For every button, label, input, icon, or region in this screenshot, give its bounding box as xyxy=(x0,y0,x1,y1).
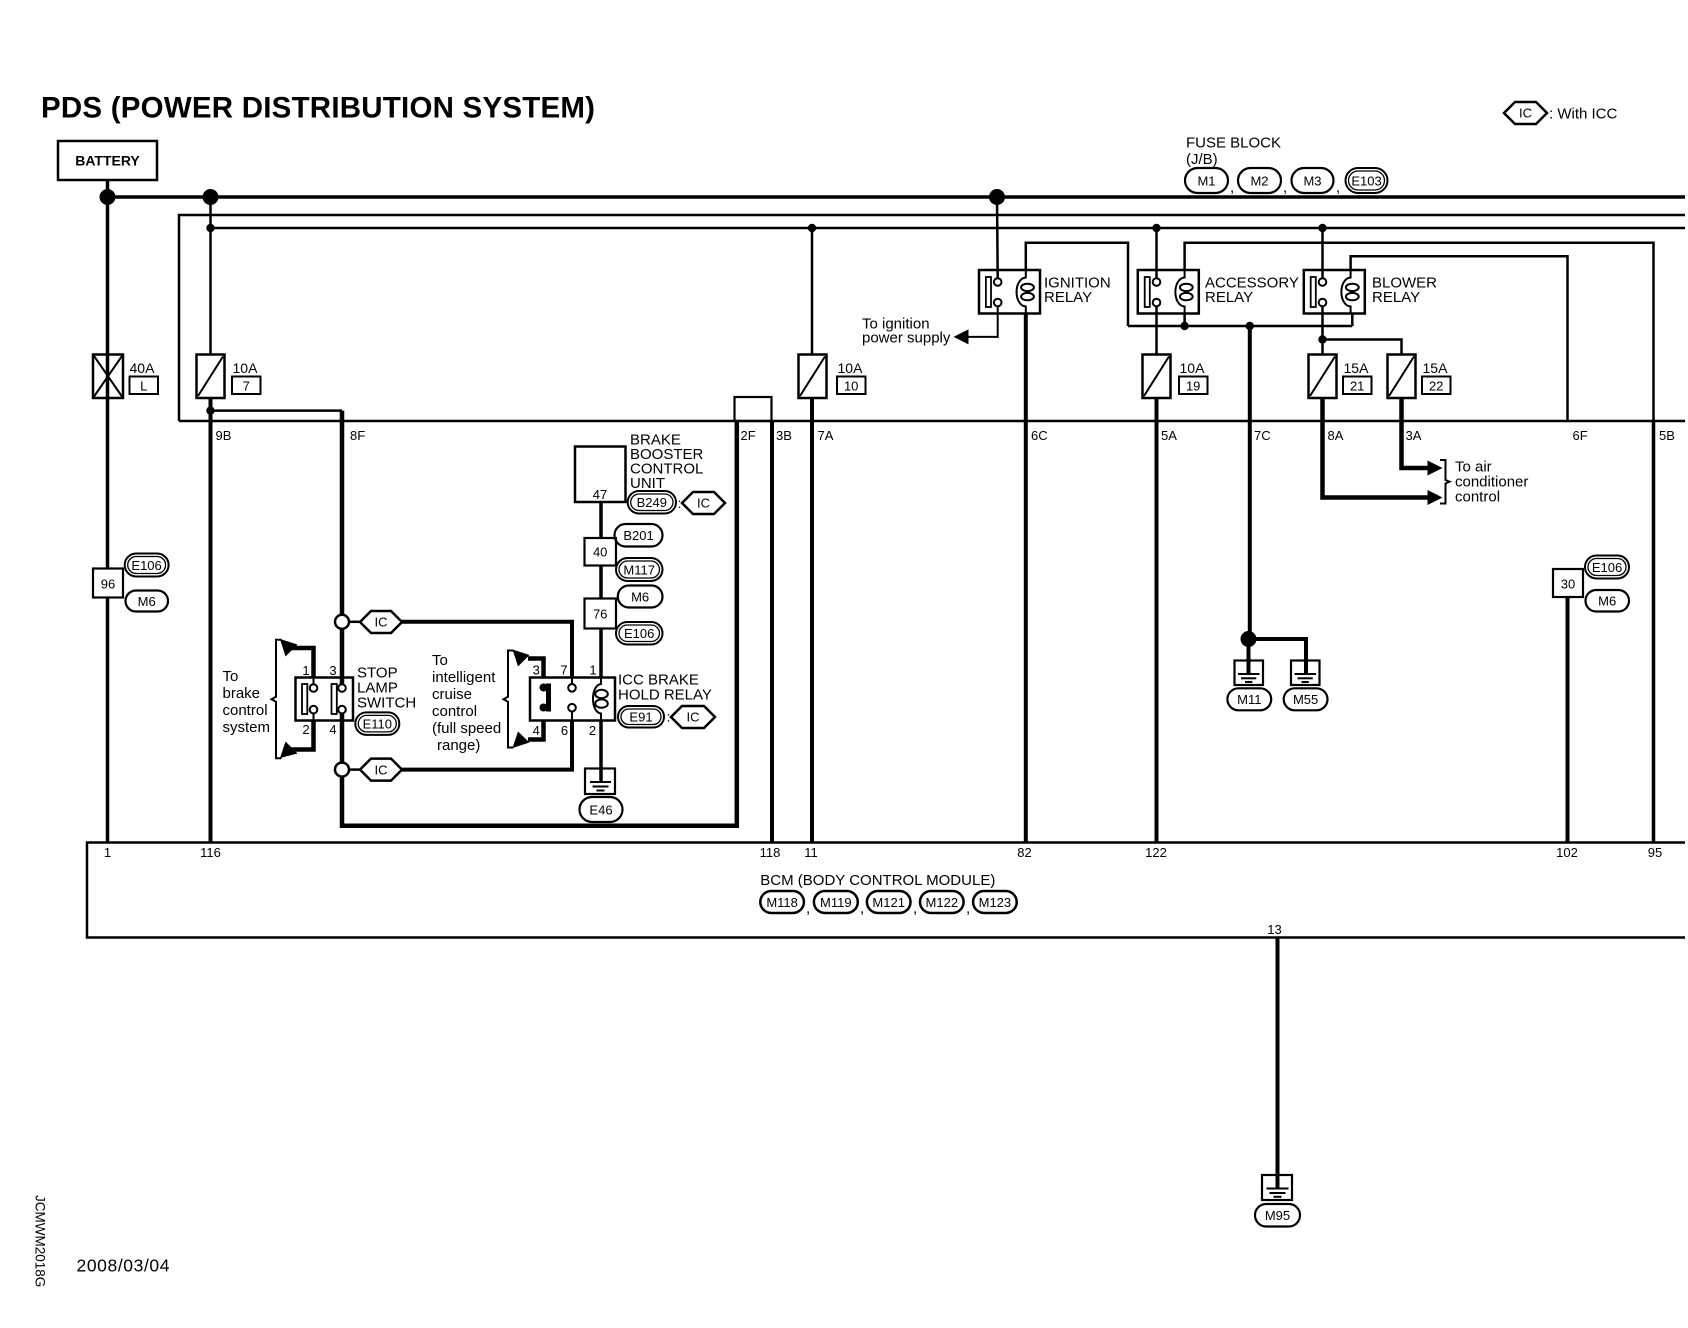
svg-text:7: 7 xyxy=(243,379,250,394)
BCM box xyxy=(87,843,1685,938)
wire stop lamp pin 1 xyxy=(313,678,315,685)
connector M122 oval xyxy=(920,891,970,917)
junction dot L3 x812 xyxy=(808,224,816,232)
wire ignition coil top L4a xyxy=(1026,243,1128,326)
svg-text:22: 22 xyxy=(1429,379,1443,394)
wire bus L3 xyxy=(211,227,1686,230)
wire stop lamp pin 2 xyxy=(313,713,315,720)
fuse 10 10A xyxy=(799,355,866,399)
svg-text:To: To xyxy=(432,652,448,669)
wire 8A fuse21 to air conditioner arrow xyxy=(1323,398,1443,505)
wire branch to fuse 22 xyxy=(1323,340,1402,355)
svg-text:IC: IC xyxy=(375,615,388,630)
connector M55 oval xyxy=(1284,688,1328,710)
svg-text:power supply: power supply xyxy=(862,330,951,347)
junction dot L3 x1322 xyxy=(1318,224,1326,232)
wire IC top to ICC relay pin 7 xyxy=(402,622,572,678)
svg-text:E106: E106 xyxy=(131,558,161,573)
IC hexagon B249 xyxy=(682,492,725,514)
svg-text:2: 2 xyxy=(302,722,309,737)
wire 5B below L9 to BCM pin 95 xyxy=(1652,421,1656,843)
label accessory relay xyxy=(1205,275,1299,307)
svg-text:RELAY: RELAY xyxy=(1372,289,1420,306)
wire bus to fuse 7 xyxy=(209,197,212,355)
svg-text:B201: B201 xyxy=(623,528,653,543)
connector E46 oval xyxy=(580,797,623,822)
wire pin6 inside xyxy=(571,712,573,721)
connector 96 box xyxy=(93,569,123,598)
wire blower contact down xyxy=(1321,306,1324,354)
svg-text:96: 96 xyxy=(101,577,115,592)
stop lamp switch xyxy=(296,678,354,721)
fuse 21 15A xyxy=(1309,355,1372,399)
svg-text:brake: brake xyxy=(223,685,261,702)
svg-text:M2: M2 xyxy=(1250,174,1268,189)
svg-text:10A: 10A xyxy=(838,360,864,376)
wire 7C to M11 ground xyxy=(1247,639,1251,661)
svg-text:RELAY: RELAY xyxy=(1044,289,1092,306)
svg-text:To: To xyxy=(223,668,239,685)
svg-text:10A: 10A xyxy=(233,360,259,376)
svg-text:UNIT: UNIT xyxy=(630,475,665,492)
connector M6 oval left xyxy=(126,591,169,612)
wire 5A fuse19 to BCM pin 122 xyxy=(1155,398,1159,843)
svg-text:E106: E106 xyxy=(1592,560,1622,575)
svg-text:116: 116 xyxy=(200,845,221,860)
wire main battery bus L1 xyxy=(108,195,1686,199)
wire branch to 8F xyxy=(211,409,343,412)
blower relay xyxy=(1304,270,1365,314)
connector M6 oval mid xyxy=(618,586,663,608)
arrow to ignition power supply xyxy=(954,329,969,344)
svg-text:3: 3 xyxy=(329,663,336,678)
connector E91 oval xyxy=(618,706,670,728)
svg-text:5A: 5A xyxy=(1161,428,1177,443)
label blower relay xyxy=(1372,275,1437,307)
connector 40 box xyxy=(585,538,617,566)
ground M95 xyxy=(1262,1175,1292,1200)
wire 2F vertical / subcircuit box right edge xyxy=(735,421,740,828)
svg-text:M6: M6 xyxy=(631,589,649,604)
wire 3B to BCM pin 118 xyxy=(770,421,774,843)
svg-text:82: 82 xyxy=(1017,845,1031,860)
label stop lamp switch xyxy=(357,665,416,712)
svg-text:1: 1 xyxy=(302,663,309,678)
svg-text:M1: M1 xyxy=(1197,174,1215,189)
svg-text:4: 4 xyxy=(533,723,540,738)
wire 8F vertical / subcircuit box left edge xyxy=(340,411,345,828)
svg-text:M6: M6 xyxy=(138,594,156,609)
svg-text:BATTERY: BATTERY xyxy=(75,153,140,169)
svg-text:47: 47 xyxy=(593,487,607,502)
junction dot 7C split xyxy=(1241,631,1257,647)
svg-text:,: , xyxy=(806,900,810,917)
svg-text:1: 1 xyxy=(104,845,111,860)
svg-text:95: 95 xyxy=(1648,845,1662,860)
svg-text:,: , xyxy=(1283,179,1287,196)
connector E106 oval mid xyxy=(616,622,663,645)
fuse 7 10A xyxy=(197,355,261,399)
svg-text:IC: IC xyxy=(687,710,700,725)
IC junction circle top xyxy=(335,615,349,629)
junction dot L3 x1156 xyxy=(1152,224,1160,232)
svg-text:40A: 40A xyxy=(130,360,156,376)
junction dot L3 start xyxy=(206,224,214,232)
connector 76 box xyxy=(585,599,617,629)
accessory relay xyxy=(1138,270,1199,314)
wire 6C ignition coil to BCM pin 82 xyxy=(1024,314,1028,843)
svg-text:M3: M3 xyxy=(1303,174,1321,189)
ground M11 xyxy=(1235,661,1264,686)
svg-text:M122: M122 xyxy=(926,895,959,910)
connector M123 oval xyxy=(973,891,1017,913)
connector M11 oval xyxy=(1227,688,1271,710)
junction dot 9B branch xyxy=(206,406,214,414)
wire battery leg top xyxy=(106,180,110,197)
svg-text:10: 10 xyxy=(844,379,858,394)
svg-text:cruise: cruise xyxy=(432,686,472,703)
wire pin47 to connector 40 xyxy=(599,502,603,538)
arrow ICC relay pin 4 xyxy=(513,721,544,749)
ICC brake hold relay xyxy=(530,678,615,721)
svg-text:3: 3 xyxy=(533,663,540,678)
svg-text:30: 30 xyxy=(1561,577,1575,592)
junction dot L6 7C xyxy=(1246,322,1254,330)
svg-text:102: 102 xyxy=(1556,845,1578,860)
wire 7A fuse10 to BCM pin 11 xyxy=(810,398,814,843)
connector B201 oval xyxy=(615,524,663,547)
wire accessory contact to fuse 19 xyxy=(1155,306,1158,354)
IC hexagon bottom xyxy=(349,759,402,781)
svg-text:RELAY: RELAY xyxy=(1205,289,1253,306)
wire ICC relay pin 2 to ground xyxy=(599,721,603,769)
svg-text:6C: 6C xyxy=(1031,428,1048,443)
svg-text:40: 40 xyxy=(593,545,607,560)
svg-text:,: , xyxy=(913,900,917,917)
svg-text:HOLD RELAY: HOLD RELAY xyxy=(618,687,712,704)
arrow ICC relay pin 3 xyxy=(513,650,544,678)
bracket brake control system xyxy=(272,640,282,759)
wire fuse7 down 9B to BCM pin 116 xyxy=(209,398,213,843)
connector 30 box xyxy=(1553,569,1583,597)
wire connector 40 to 76 xyxy=(599,566,603,599)
connector B249 oval xyxy=(628,491,682,514)
connector M118 oval xyxy=(760,891,810,917)
svg-text:1: 1 xyxy=(589,663,596,678)
wire L6 coil link xyxy=(1128,325,1352,328)
wire IC bottom to ICC relay pin 6 xyxy=(402,721,572,770)
connector M95 oval xyxy=(1255,1204,1300,1227)
svg-text:,: , xyxy=(1336,179,1340,196)
svg-text:2: 2 xyxy=(589,723,596,738)
svg-text:FUSE BLOCK: FUSE BLOCK xyxy=(1186,135,1281,152)
wire L3 dot to blower contact xyxy=(1321,228,1324,278)
svg-text:L: L xyxy=(140,379,147,394)
wire bus L2 xyxy=(179,215,1685,421)
svg-text:range): range) xyxy=(437,737,480,754)
wire 7C to M55 ground xyxy=(1249,639,1307,661)
svg-text:15A: 15A xyxy=(1423,360,1449,376)
svg-text:B249: B249 xyxy=(637,495,667,510)
svg-text:7: 7 xyxy=(560,663,567,678)
label to brake control system xyxy=(223,668,271,736)
label brake booster control unit xyxy=(630,432,704,493)
wire 13 to M95 ground xyxy=(1276,938,1280,1176)
svg-text:19: 19 xyxy=(1186,379,1200,394)
connector E103 oval xyxy=(1346,168,1388,193)
junction dot bus x997 xyxy=(989,189,1005,205)
ground M55 xyxy=(1291,661,1320,686)
svg-text:,: , xyxy=(860,900,864,917)
svg-text:M123: M123 xyxy=(979,895,1012,910)
svg-text:4: 4 xyxy=(329,722,336,737)
svg-text:M118: M118 xyxy=(766,895,798,910)
svg-text:2008/03/04: 2008/03/04 xyxy=(77,1256,170,1276)
fusible link 40A L xyxy=(93,355,158,399)
svg-text:IC: IC xyxy=(697,496,710,511)
svg-text:E103: E103 xyxy=(1351,174,1381,189)
fuse 19 10A xyxy=(1143,355,1208,399)
svg-text:M6: M6 xyxy=(1598,594,1616,609)
connector E110 oval xyxy=(355,712,399,735)
bracket intelligent cruise control xyxy=(504,651,514,748)
svg-text:M95: M95 xyxy=(1265,1208,1290,1223)
wire bus L9 top of BCM feed box xyxy=(179,420,1685,423)
connector E106 oval left xyxy=(125,554,169,577)
label to intelligent cruise control xyxy=(432,652,501,754)
svg-text:BCM (BODY CONTROL MODULE): BCM (BODY CONTROL MODULE) xyxy=(760,872,995,889)
legend IC hexagon : With ICC xyxy=(1504,102,1618,124)
svg-text:21: 21 xyxy=(1350,379,1364,394)
svg-text:E91: E91 xyxy=(629,709,652,724)
svg-text:JCMWM2018G: JCMWM2018G xyxy=(33,1195,48,1287)
svg-text:E106: E106 xyxy=(624,626,654,641)
junction dot blower contact branch xyxy=(1318,335,1326,343)
svg-text:M119: M119 xyxy=(820,895,852,910)
connector M3 oval xyxy=(1292,168,1341,196)
subcircuit box bottom edge xyxy=(342,824,739,829)
svg-text:E46: E46 xyxy=(589,803,612,818)
connector M1 oval xyxy=(1185,168,1234,196)
wire 3A fuse22 to air conditioner arrow xyxy=(1402,398,1443,476)
svg-text:E110: E110 xyxy=(363,716,392,731)
svg-text:M55: M55 xyxy=(1293,692,1318,707)
wire 6F below 30 to BCM pin 102 xyxy=(1566,597,1570,843)
label to air conditioner control xyxy=(1455,459,1528,506)
svg-text:118: 118 xyxy=(760,845,781,860)
connector M2 oval xyxy=(1238,168,1287,196)
svg-text:M117: M117 xyxy=(623,562,655,577)
svg-text:control: control xyxy=(223,702,268,719)
svg-text:5B: 5B xyxy=(1659,428,1675,443)
wire accessory coil bottom to L6 xyxy=(1183,314,1186,327)
battery xyxy=(58,141,157,180)
wire connector 76 to ICC relay pin 1 xyxy=(599,629,603,678)
svg-text:8F: 8F xyxy=(350,428,365,443)
junction dot battery xyxy=(100,189,116,205)
bracket to air conditioner control xyxy=(1440,460,1450,504)
label ICC brake hold relay xyxy=(618,672,712,704)
wire pin7 inside xyxy=(571,678,573,685)
svg-text:control: control xyxy=(1455,489,1500,506)
wire L3 dot to accessory contact xyxy=(1155,228,1158,278)
brake booster control unit box xyxy=(575,447,626,503)
IC junction circle bottom xyxy=(335,763,349,777)
connector E106 oval right xyxy=(1585,556,1629,579)
svg-text:9B: 9B xyxy=(216,428,232,443)
svg-text:system: system xyxy=(223,719,271,736)
svg-text:IC: IC xyxy=(375,762,388,777)
svg-text:10A: 10A xyxy=(1180,360,1206,376)
svg-text:(J/B): (J/B) xyxy=(1186,151,1218,168)
svg-text:8A: 8A xyxy=(1328,428,1344,443)
svg-text:7C: 7C xyxy=(1254,428,1271,443)
svg-text:,: , xyxy=(1230,179,1234,196)
svg-text:M11: M11 xyxy=(1237,692,1261,707)
svg-text:(full speed: (full speed xyxy=(432,720,501,737)
svg-text:15A: 15A xyxy=(1344,360,1370,376)
svg-text:6: 6 xyxy=(561,723,568,738)
label fuse block J/B xyxy=(1186,135,1281,169)
svg-text:M121: M121 xyxy=(872,895,905,910)
connector box 2F/3B xyxy=(735,397,772,421)
label ignition relay xyxy=(1044,275,1111,307)
fuse 22 15A xyxy=(1388,355,1451,399)
wire battery to fuse L xyxy=(106,197,110,569)
svg-text:IC: IC xyxy=(1519,106,1532,121)
wire 7C down xyxy=(1248,326,1252,639)
connector M117 oval xyxy=(616,558,663,581)
svg-text:6F: 6F xyxy=(1573,428,1588,443)
label to ignition power supply xyxy=(862,316,951,347)
svg-text:3A: 3A xyxy=(1406,428,1422,443)
IC hexagon E91 xyxy=(671,706,715,728)
wire bus to ignition relay contact xyxy=(996,197,999,278)
ground E46 xyxy=(585,769,615,795)
svg-text:7A: 7A xyxy=(818,428,834,443)
svg-text:2F: 2F xyxy=(741,428,756,443)
svg-text:,: , xyxy=(966,900,970,917)
wire L3 to fuse 10 xyxy=(811,228,814,355)
svg-text:76: 76 xyxy=(593,606,607,621)
svg-text:: With ICC: : With ICC xyxy=(1549,106,1618,123)
wire 96 to BCM pin 1 xyxy=(106,598,110,843)
svg-text:control: control xyxy=(432,703,477,720)
svg-text:PDS (POWER DISTRIBUTION SYSTEM: PDS (POWER DISTRIBUTION SYSTEM) xyxy=(41,92,595,125)
svg-text:11: 11 xyxy=(804,845,818,860)
connector M119 oval xyxy=(814,891,864,917)
junction dot bus x210 xyxy=(203,189,219,205)
arrow to brake control top xyxy=(280,639,314,678)
svg-text:3B: 3B xyxy=(776,428,792,443)
wire blower coil top L5 to 6F corner xyxy=(1351,256,1568,421)
arrow to brake control bottom xyxy=(280,721,314,759)
ignition relay xyxy=(979,270,1040,314)
IC hexagon top xyxy=(349,611,402,633)
junction dot L6 accessory xyxy=(1180,322,1188,330)
svg-text:intelligent: intelligent xyxy=(432,669,496,686)
wire blower coil bottom to L6 xyxy=(1351,314,1354,327)
svg-text:13: 13 xyxy=(1267,922,1281,937)
svg-text:SWITCH: SWITCH xyxy=(357,695,416,712)
wire accessory coil top L4b to 5B corner xyxy=(1185,243,1654,421)
connector M6 oval right xyxy=(1586,590,1630,612)
wire ignition contact down to arrow xyxy=(968,306,998,337)
svg-text:122: 122 xyxy=(1145,845,1167,860)
connector M121 oval xyxy=(867,891,917,917)
